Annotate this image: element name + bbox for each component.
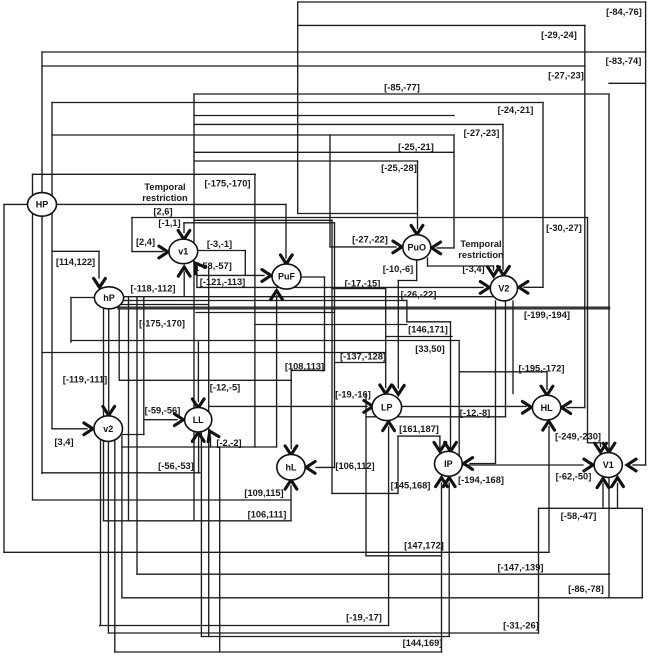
node HL bbox=[532, 395, 560, 420]
wire v196 bbox=[196, 266, 198, 287]
wire h307 bbox=[118, 306, 610, 308]
wire h174 bbox=[33, 173, 256, 175]
svg-text:[2,6]: [2,6] bbox=[153, 206, 172, 216]
svg-text:[-195,-172]: [-195,-172] bbox=[519, 363, 565, 373]
wire v439 bbox=[439, 436, 441, 448]
wire h135 bbox=[52, 134, 454, 136]
arrow into v1 left bbox=[159, 246, 168, 258]
wire h247 bbox=[437, 247, 454, 249]
wire v210 bbox=[210, 437, 212, 447]
arrow into V2 right bbox=[519, 281, 528, 293]
arrow into IP right bbox=[464, 458, 473, 470]
arrow into LL bottom bbox=[192, 432, 204, 441]
node V1 bbox=[594, 453, 622, 478]
wire h463 bbox=[470, 463, 496, 465]
wire v71 bbox=[70, 298, 72, 343]
wire h115 bbox=[194, 115, 454, 117]
wire v600 bbox=[600, 443, 602, 447]
svg-text:[-56,-53]: [-56,-53] bbox=[158, 461, 194, 471]
wire h342 bbox=[71, 340, 459, 342]
wire v297 bbox=[297, 2, 299, 214]
wire v441 bbox=[441, 483, 443, 652]
svg-text:restriction: restriction bbox=[458, 250, 504, 260]
wire h406b bbox=[402, 405, 527, 407]
wire h102 bbox=[52, 102, 543, 104]
wire v119 bbox=[118, 309, 120, 381]
wire h623 bbox=[100, 625, 389, 627]
wire h246 bbox=[330, 246, 396, 248]
wire h25 bbox=[298, 24, 585, 26]
wire h636 bbox=[201, 636, 449, 638]
node v2 bbox=[94, 416, 123, 442]
wire v194 bbox=[193, 94, 195, 521]
svg-text:[-58,-47]: [-58,-47] bbox=[561, 511, 597, 521]
svg-text:[147,172]: [147,172] bbox=[404, 540, 444, 550]
svg-text:[-199,-194]: [-199,-194] bbox=[524, 310, 570, 320]
svg-text:[-12,-8]: [-12,-8] bbox=[460, 408, 490, 418]
wire h552 bbox=[4, 551, 549, 553]
svg-text:[-19,-17]: [-19,-17] bbox=[346, 612, 382, 622]
svg-text:Temporal: Temporal bbox=[144, 182, 185, 192]
wire h251 bbox=[52, 250, 99, 252]
svg-text:[-137,-128]: [-137,-128] bbox=[340, 351, 386, 361]
wire hpL bbox=[4, 203, 28, 205]
wire h434 bbox=[123, 434, 144, 436]
svg-text:[-25,-21]: [-25,-21] bbox=[398, 142, 434, 152]
svg-text:[33,50]: [33,50] bbox=[415, 344, 444, 354]
arrow into IP top-right bbox=[445, 442, 457, 451]
wire h152 bbox=[194, 151, 454, 153]
wire h555 bbox=[366, 555, 442, 557]
arrow into LL top bbox=[192, 399, 204, 408]
wire h66 bbox=[42, 65, 585, 67]
wire h220 bbox=[194, 219, 332, 221]
wire h336 bbox=[386, 336, 452, 338]
wire h250 bbox=[197, 250, 245, 252]
svg-text:v2: v2 bbox=[103, 424, 113, 434]
wire v52 bbox=[51, 103, 53, 429]
wire h296 bbox=[124, 296, 505, 298]
svg-text:[-27,-23]: [-27,-23] bbox=[464, 128, 500, 138]
wire v114 bbox=[114, 441, 116, 652]
wire v99 bbox=[98, 251, 100, 278]
svg-text:[-12,-5]: [-12,-5] bbox=[210, 383, 240, 393]
wire h419 bbox=[144, 419, 177, 421]
wire v334 bbox=[334, 223, 336, 468]
wire v539 bbox=[538, 508, 540, 633]
svg-text:[-1,1]: [-1,1] bbox=[158, 218, 180, 228]
wire v642 bbox=[641, 508, 643, 598]
wire h275 bbox=[197, 274, 264, 276]
wire v459 bbox=[458, 342, 460, 465]
arrow into V2 top-right bbox=[498, 266, 510, 275]
wire v584 bbox=[584, 25, 586, 407]
wire h380 bbox=[119, 379, 291, 381]
arrow into LP top-right bbox=[392, 385, 404, 394]
wire h362 bbox=[335, 362, 386, 364]
arrow into v1 top bbox=[178, 230, 190, 239]
wire hpR bbox=[56, 203, 286, 205]
wire h407 bbox=[567, 407, 585, 409]
wire v513 bbox=[512, 301, 514, 394]
wire v416 bbox=[416, 260, 418, 281]
svg-text:PuO: PuO bbox=[408, 243, 427, 253]
wire v42a bbox=[41, 52, 43, 194]
svg-text:[108,113]: [108,113] bbox=[285, 361, 324, 371]
wire v4 bbox=[3, 204, 5, 552]
wire v208 bbox=[208, 269, 210, 637]
arrow into v2 left bbox=[84, 423, 93, 435]
svg-text:[161,187]: [161,187] bbox=[399, 424, 439, 434]
wire h213 bbox=[298, 213, 418, 215]
svg-text:[-118,-112]: [-118,-112] bbox=[131, 283, 176, 293]
wire h633 bbox=[108, 632, 538, 634]
arrow into V2 top-left bbox=[488, 267, 500, 276]
wire h465 bbox=[459, 464, 583, 466]
wire h288 bbox=[332, 288, 386, 290]
wire v245 bbox=[244, 251, 246, 276]
wire v454 bbox=[453, 135, 455, 248]
wire v276 bbox=[276, 296, 278, 448]
wire h83 bbox=[609, 82, 646, 84]
arrow into PuO left bbox=[393, 241, 402, 253]
wire v427 bbox=[427, 258, 429, 266]
wire h598 bbox=[122, 597, 642, 599]
arrow into IP bottom-left bbox=[436, 478, 448, 487]
svg-text:[-83,-74]: [-83,-74] bbox=[606, 56, 642, 66]
arrow into hL bottom bbox=[285, 480, 297, 489]
svg-text:[2,4]: [2,4] bbox=[136, 237, 155, 247]
arrow into V1 left bbox=[584, 459, 593, 471]
arrow into HL top bbox=[541, 386, 553, 395]
svg-text:[114,122]: [114,122] bbox=[56, 257, 95, 267]
svg-text:[-2,-2]: [-2,-2] bbox=[216, 438, 241, 448]
arrow into IP top-left bbox=[434, 442, 446, 451]
wire h2 bbox=[298, 1, 646, 3]
wire h277 bbox=[301, 276, 325, 278]
arrow into PuF bottom bbox=[271, 291, 283, 300]
svg-text:[-24,-21]: [-24,-21] bbox=[498, 105, 534, 115]
wire v184b bbox=[183, 272, 185, 297]
arrow into hL right bbox=[306, 462, 315, 474]
wire h370 bbox=[291, 369, 324, 371]
arrow into v1 bottom bbox=[178, 267, 190, 276]
wire h324 bbox=[255, 324, 407, 326]
node V2 bbox=[490, 276, 517, 301]
svg-text:[-27,-23]: [-27,-23] bbox=[548, 70, 584, 80]
wire v42b bbox=[41, 216, 43, 474]
wire v110 bbox=[108, 309, 110, 412]
svg-text:[-86,-78]: [-86,-78] bbox=[568, 584, 604, 594]
wire h94 bbox=[194, 93, 609, 95]
wire v135 bbox=[136, 297, 138, 575]
wire h652 bbox=[115, 651, 442, 653]
wire v324 bbox=[324, 277, 326, 370]
wire v645 bbox=[645, 2, 647, 465]
svg-text:[-62,-50]: [-62,-50] bbox=[556, 471, 592, 481]
node PuF bbox=[272, 264, 301, 289]
wire v144 bbox=[143, 297, 145, 435]
wire h161 bbox=[194, 160, 418, 162]
arrow into hL top bbox=[285, 446, 297, 455]
wire v121 bbox=[121, 436, 123, 598]
wire h297 bbox=[71, 297, 95, 299]
svg-text:[-84,-76]: [-84,-76] bbox=[606, 7, 642, 17]
wire h371 bbox=[459, 371, 547, 373]
arrow into IP bottom-right bbox=[443, 478, 455, 487]
wire v100 bbox=[100, 441, 102, 626]
node v1 bbox=[169, 239, 198, 264]
svg-text:[-119,-111]: [-119,-111] bbox=[63, 375, 107, 385]
arrow into V2 left bbox=[480, 282, 489, 294]
wire v385 bbox=[385, 289, 387, 388]
arrow into V1 top-right bbox=[603, 443, 615, 452]
svg-text:[-59,-56]: [-59,-56] bbox=[145, 405, 181, 415]
wire v493 bbox=[493, 266, 495, 270]
wire v366 bbox=[365, 394, 367, 556]
svg-text:HL: HL bbox=[541, 403, 553, 413]
wire h493 bbox=[332, 492, 398, 494]
wire h436 bbox=[398, 435, 440, 437]
svg-text:[-147,-139]: [-147,-139] bbox=[498, 562, 544, 572]
wire h520 bbox=[104, 520, 292, 522]
wire v398a bbox=[397, 281, 399, 389]
wire h467 bbox=[316, 466, 335, 468]
wire v388 bbox=[388, 427, 390, 626]
wire h321 bbox=[407, 321, 451, 323]
svg-text:restriction: restriction bbox=[142, 193, 188, 203]
wire h280 bbox=[398, 280, 416, 282]
svg-text:[-26,-22]: [-26,-22] bbox=[401, 289, 437, 299]
arrow into HL left bbox=[522, 401, 531, 413]
arrow into HL bottom bbox=[543, 421, 555, 430]
svg-text:[-17,-15]: [-17,-15] bbox=[345, 278, 381, 288]
arrow into V1 bottom-right bbox=[612, 478, 624, 487]
svg-text:[-194,-168]: [-194,-168] bbox=[458, 475, 504, 485]
wire v549 bbox=[548, 427, 550, 553]
wire h406a bbox=[209, 405, 367, 407]
svg-text:V2: V2 bbox=[498, 284, 509, 294]
wire v609 bbox=[608, 94, 610, 598]
wire h312 bbox=[196, 312, 335, 314]
arrow into V1 top-left bbox=[595, 443, 607, 452]
svg-text:[109,115]: [109,115] bbox=[244, 488, 283, 498]
wire h287 bbox=[197, 286, 483, 288]
wire v450 bbox=[450, 322, 452, 448]
wire v603 bbox=[602, 484, 604, 509]
svg-text:[-58,-57]: [-58,-57] bbox=[196, 261, 232, 271]
node hP bbox=[94, 287, 123, 309]
wire h416 bbox=[366, 416, 506, 418]
arrow into hP top bbox=[94, 278, 106, 287]
wire v128 bbox=[128, 297, 130, 521]
node hL bbox=[277, 454, 305, 480]
wire v547 bbox=[546, 372, 548, 390]
svg-text:[-25,-28]: [-25,-28] bbox=[381, 163, 417, 173]
svg-text:[-30,-27]: [-30,-27] bbox=[546, 223, 582, 233]
wire v398b bbox=[397, 436, 399, 493]
svg-text:[-175,-170]: [-175,-170] bbox=[205, 178, 251, 188]
svg-text:HP: HP bbox=[36, 200, 49, 210]
wire h266 bbox=[428, 265, 494, 267]
svg-text:[145,168]: [145,168] bbox=[391, 480, 431, 490]
arrow into PuF left bbox=[262, 270, 271, 282]
wire h252 bbox=[132, 251, 163, 253]
wire h352 bbox=[42, 352, 386, 354]
wire v254 bbox=[254, 174, 256, 447]
arrow into PuO right bbox=[432, 242, 441, 254]
wire v505 bbox=[505, 301, 507, 417]
arrow into v1 lower-right bbox=[190, 260, 205, 274]
wire v286 bbox=[285, 204, 287, 258]
wire h304 bbox=[120, 304, 209, 306]
wire h428 bbox=[52, 428, 87, 430]
svg-text:[-3,4]: [-3,4] bbox=[462, 264, 484, 274]
arrow into V1 bottom-left bbox=[597, 479, 609, 488]
svg-text:v1: v1 bbox=[178, 247, 188, 257]
svg-text:V1: V1 bbox=[603, 460, 614, 470]
wire h442 bbox=[588, 442, 601, 444]
node HP bbox=[28, 193, 57, 217]
arrow into LP bottom bbox=[383, 422, 395, 431]
wire h508 bbox=[540, 507, 643, 509]
wire v406 bbox=[406, 301, 408, 322]
wire v201 bbox=[200, 432, 202, 637]
arrow into LL left bbox=[174, 414, 183, 426]
wire v198a bbox=[197, 342, 199, 402]
wire h447 bbox=[122, 446, 277, 448]
svg-text:LL: LL bbox=[193, 415, 204, 425]
wire v543 bbox=[542, 103, 544, 288]
svg-text:hP: hP bbox=[103, 293, 115, 303]
svg-text:[-19,-16]: [-19,-16] bbox=[335, 389, 371, 399]
wire v219 bbox=[219, 447, 221, 652]
svg-text:[-31,-26]: [-31,-26] bbox=[503, 620, 539, 630]
arrow into V1 right bbox=[627, 459, 636, 471]
node LL bbox=[185, 407, 212, 432]
wire v330 bbox=[329, 135, 331, 247]
svg-text:[-121,-113]: [-121,-113] bbox=[200, 277, 245, 287]
svg-text:LP: LP bbox=[381, 403, 393, 413]
arrow into v2 top bbox=[103, 406, 115, 415]
wire v417 bbox=[417, 161, 419, 229]
wire v130 bbox=[131, 218, 133, 252]
svg-text:[3,4]: [3,4] bbox=[54, 437, 73, 447]
wire h222 bbox=[184, 222, 335, 224]
wire v198b bbox=[198, 434, 200, 473]
wire v449 bbox=[448, 483, 450, 637]
svg-text:Temporal: Temporal bbox=[460, 239, 501, 249]
svg-text:PuF: PuF bbox=[278, 272, 296, 282]
svg-text:[-249,-230]: [-249,-230] bbox=[555, 431, 601, 441]
svg-text:[-85,-77]: [-85,-77] bbox=[384, 82, 420, 92]
wire v108 bbox=[107, 441, 109, 633]
svg-text:[146,171]: [146,171] bbox=[408, 324, 448, 334]
node IP bbox=[435, 451, 463, 476]
svg-text:IP: IP bbox=[444, 459, 453, 469]
wire v32 bbox=[32, 174, 34, 500]
wire h287r bbox=[524, 286, 543, 288]
svg-text:[-175,-170]: [-175,-170] bbox=[139, 318, 185, 328]
svg-text:[106,112]: [106,112] bbox=[335, 461, 374, 471]
svg-text:[-10,-6]: [-10,-6] bbox=[383, 264, 413, 274]
wire h124 bbox=[194, 123, 503, 125]
wire v291a bbox=[290, 370, 292, 448]
svg-text:[-29,-24]: [-29,-24] bbox=[541, 30, 577, 40]
arrow into PuO top bbox=[411, 225, 423, 234]
wire h500 bbox=[33, 499, 292, 501]
arrow into HL right bbox=[562, 402, 571, 414]
wire v291b bbox=[290, 486, 292, 521]
svg-text:[144,169]: [144,169] bbox=[403, 638, 443, 648]
wire h574 bbox=[137, 573, 610, 575]
wire v103 bbox=[103, 309, 105, 521]
wire h473 bbox=[42, 472, 200, 474]
wire v587 bbox=[587, 218, 589, 443]
wire h217 bbox=[132, 217, 588, 219]
node LP bbox=[372, 394, 402, 421]
wire h52 bbox=[42, 51, 646, 53]
arrow into LP left bbox=[364, 401, 373, 413]
wire h308 bbox=[118, 308, 610, 310]
arrow into LL lower-right bbox=[204, 429, 218, 442]
wire h465b bbox=[633, 464, 646, 466]
node PuO bbox=[403, 235, 431, 260]
wire v503 bbox=[502, 124, 504, 270]
wire h300 bbox=[124, 300, 407, 302]
arrow into LP top-left bbox=[380, 385, 392, 394]
wire v495 bbox=[495, 301, 497, 464]
svg-text:[-3,-1]: [-3,-1] bbox=[207, 239, 232, 249]
svg-text:hL: hL bbox=[286, 462, 297, 472]
wire v184a bbox=[183, 223, 185, 233]
wire v614 bbox=[617, 484, 619, 509]
wire v332 bbox=[331, 220, 333, 493]
arrow into PuF top bbox=[280, 255, 292, 264]
svg-text:[-27,-22]: [-27,-22] bbox=[352, 234, 388, 244]
svg-text:[106,111]: [106,111] bbox=[248, 509, 287, 519]
